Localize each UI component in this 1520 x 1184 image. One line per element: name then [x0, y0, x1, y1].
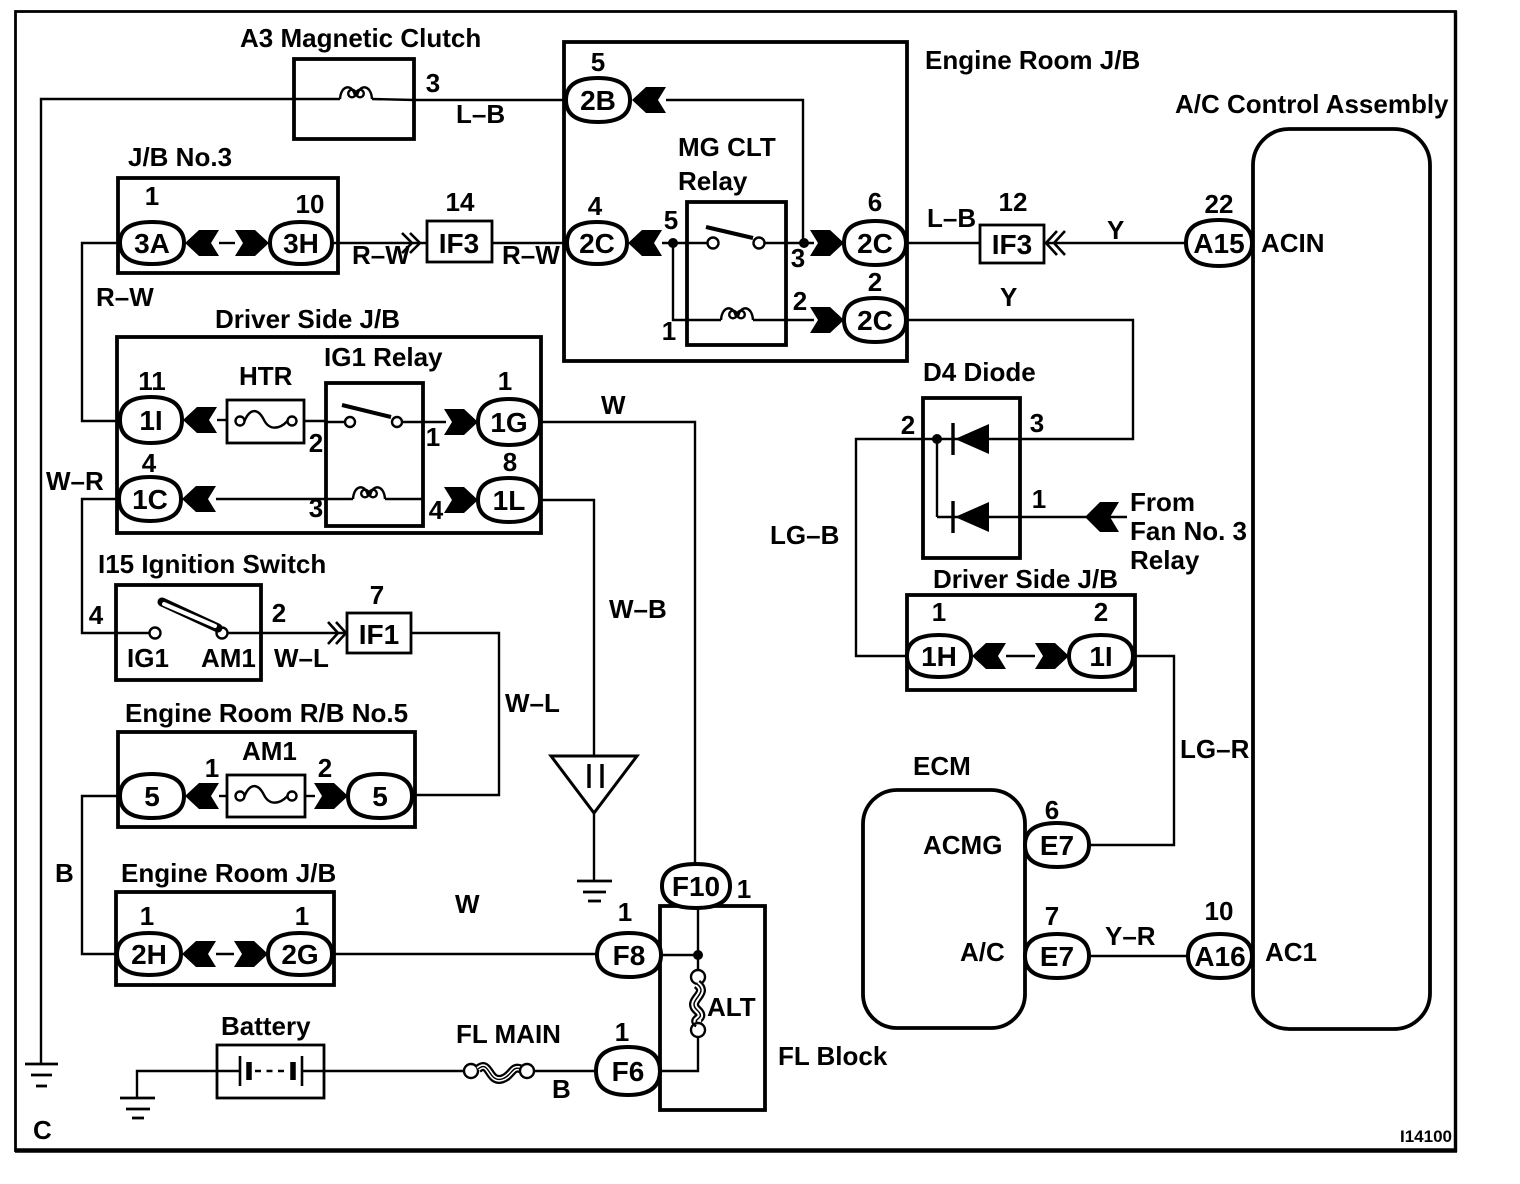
svg-text:R–W: R–W	[96, 282, 154, 312]
svg-text:1G: 1G	[490, 407, 527, 438]
svg-text:R–W: R–W	[502, 240, 560, 270]
fusible link FL MAIN	[464, 1064, 534, 1079]
note From Fan No. 3 Relay	[1130, 487, 1247, 575]
ground noise filter	[577, 881, 612, 901]
connector 5 right	[348, 774, 412, 818]
connector 2H	[117, 933, 181, 975]
svg-text:2: 2	[868, 267, 882, 297]
wire 2C6 to IF3 L-B	[906, 242, 980, 244]
wire arrow to AM1 fuse	[219, 795, 227, 797]
arrow right into 5	[314, 783, 348, 809]
svg-text:2: 2	[309, 428, 323, 458]
svg-text:IF1: IF1	[359, 619, 399, 650]
Engine Room R/B No.5 box	[118, 732, 415, 827]
svg-text:E7: E7	[1040, 941, 1074, 972]
svg-text:3H: 3H	[283, 228, 319, 259]
relay IG1 box	[326, 383, 423, 526]
svg-text:Battery: Battery	[221, 1011, 311, 1041]
wire relay to 1G arrow	[423, 421, 446, 423]
diode D4 lower	[937, 501, 1020, 533]
svg-text:W–R: W–R	[46, 466, 104, 496]
svg-text:Engine Room R/B No.5: Engine Room R/B No.5	[125, 698, 408, 728]
wire contact to 2C pin6	[786, 242, 814, 244]
svg-text:Relay: Relay	[678, 166, 748, 196]
svg-text:1: 1	[662, 316, 676, 346]
svg-text:A/C Control Assembly: A/C Control Assembly	[1175, 89, 1449, 119]
svg-text:2: 2	[901, 410, 915, 440]
connector F6	[596, 1047, 660, 1095]
wire through clutch box	[294, 98, 340, 100]
fuse HTR box	[227, 400, 304, 443]
connector 5 left	[120, 774, 184, 818]
arrow right into 2C pin6	[810, 230, 844, 256]
connector F10	[662, 864, 730, 908]
connector 1G	[478, 399, 540, 445]
svg-text:A/C: A/C	[960, 937, 1005, 967]
wire 2B to relay contact	[666, 100, 803, 243]
wire IF3 to 2C	[492, 242, 567, 244]
svg-text:IG1 Relay: IG1 Relay	[324, 342, 443, 372]
svg-text:F6: F6	[612, 1056, 645, 1087]
svg-text:A15: A15	[1193, 228, 1244, 259]
svg-text:1: 1	[498, 366, 512, 396]
wire fuse to arrow	[305, 795, 315, 797]
svg-text:F10: F10	[672, 871, 720, 902]
svg-text:D4 Diode: D4 Diode	[923, 357, 1036, 387]
wire clutch to 2B	[414, 99, 566, 101]
wire 2C2 to D4 Y	[904, 320, 1133, 439]
fuse IF1 (7) box	[347, 613, 411, 653]
svg-text:B: B	[55, 858, 74, 888]
wire F10 down through block	[697, 908, 699, 970]
svg-text:5: 5	[591, 47, 605, 77]
wire arrow to relay box	[662, 242, 687, 244]
connector 2G	[268, 933, 332, 975]
wire between arrows	[219, 242, 235, 244]
svg-text:Y: Y	[1000, 282, 1017, 312]
svg-text:2B: 2B	[580, 85, 616, 116]
svg-text:R–W: R–W	[352, 240, 410, 270]
fusible link ALT	[691, 970, 705, 1037]
junction dot pin3	[799, 238, 809, 248]
connector 3H	[270, 222, 332, 264]
relay MG CLT contact	[687, 227, 786, 249]
wire coil to 2C pin2	[786, 319, 814, 321]
junction dot pin2	[932, 434, 942, 444]
wire IF1 down to AM1 fuse row W-L	[411, 633, 499, 795]
connector A15	[1186, 220, 1252, 266]
svg-text:W–B: W–B	[609, 594, 667, 624]
arrow right into 1G	[444, 409, 478, 435]
svg-text:ALT: ALT	[707, 992, 756, 1022]
svg-text:Engine Room J/B: Engine Room J/B	[121, 858, 336, 888]
svg-text:1: 1	[737, 874, 751, 904]
junction dot pin5	[668, 238, 678, 248]
arrow right between 1H 1I	[1035, 643, 1069, 669]
J/B No.3 box	[118, 178, 338, 273]
ignition switch I15 box	[116, 585, 261, 680]
Engine Room J/B top box	[564, 42, 907, 361]
svg-text:10: 10	[1205, 896, 1234, 926]
svg-text:LG–B: LG–B	[770, 520, 839, 550]
chevron out of IF3	[1046, 231, 1065, 255]
svg-text:Driver Side J/B: Driver Side J/B	[215, 304, 400, 334]
wire between arrows	[1006, 655, 1035, 657]
svg-text:4: 4	[142, 448, 157, 478]
svg-text:4: 4	[89, 600, 104, 630]
svg-text:MG CLT: MG CLT	[678, 132, 776, 162]
wire pin5 down to coil pin1	[673, 243, 687, 320]
svg-text:2C: 2C	[579, 228, 615, 259]
arrow right into 2C pin2	[810, 307, 844, 333]
svg-text:2G: 2G	[281, 939, 318, 970]
svg-text:FL Block: FL Block	[778, 1041, 888, 1071]
chevron into IF1	[328, 622, 346, 644]
svg-text:1: 1	[140, 901, 154, 931]
svg-text:1: 1	[615, 1017, 629, 1047]
ECM box	[863, 790, 1025, 1028]
svg-text:1: 1	[295, 901, 309, 931]
svg-text:Relay: Relay	[1130, 545, 1200, 575]
arrow left between 3A 3H	[185, 230, 219, 256]
svg-text:FL MAIN: FL MAIN	[456, 1019, 561, 1049]
wire battery to FL MAIN	[324, 1070, 464, 1072]
wire HTR to relay pin2	[304, 420, 326, 422]
svg-text:IF3: IF3	[992, 229, 1032, 260]
arrow left at 2C pin4	[628, 230, 662, 256]
ground C	[25, 1064, 58, 1086]
wire 3H to IF3	[332, 242, 427, 244]
wire A3 clutch to left trunk	[41, 99, 294, 1063]
svg-text:Y: Y	[1107, 215, 1124, 245]
svg-text:ECM: ECM	[913, 751, 971, 781]
svg-text:3: 3	[1030, 408, 1044, 438]
wire FL MAIN to F6 B	[534, 1070, 597, 1072]
wire 1L to noise filter W-B	[540, 500, 594, 756]
wire E7 to A16 Y-R	[1089, 955, 1188, 957]
fuse AM1 box	[227, 775, 305, 817]
diode D4 upper	[937, 423, 1020, 455]
svg-text:L–B: L–B	[927, 203, 976, 233]
svg-text:Engine Room J/B: Engine Room J/B	[925, 45, 1140, 75]
chevron into IF3	[402, 233, 420, 253]
svg-text:2: 2	[272, 598, 286, 628]
arrow left at 5	[185, 783, 219, 809]
svg-text:ACMG: ACMG	[923, 830, 1002, 860]
connector 1L	[478, 478, 540, 522]
svg-text:6: 6	[1045, 795, 1059, 825]
svg-text:8: 8	[503, 447, 517, 477]
connector 2B	[566, 78, 630, 122]
connector 1C	[119, 477, 181, 521]
diode D4 box	[923, 398, 1020, 558]
wire filter to ground	[593, 813, 595, 881]
wire ALT to F6	[661, 1037, 698, 1071]
Driver Side J/B right box	[907, 595, 1135, 690]
svg-text:1I: 1I	[1089, 641, 1112, 672]
svg-text:1: 1	[1032, 484, 1046, 514]
arrow right between 2H 2G	[234, 941, 268, 967]
svg-text:12: 12	[999, 187, 1028, 217]
svg-text:I14100: I14100	[1400, 1127, 1452, 1146]
connector 2C pin6	[844, 221, 906, 265]
junction dot	[693, 950, 703, 960]
svg-text:1: 1	[145, 181, 159, 211]
wire 5 left to B trunk	[82, 796, 120, 954]
ignition switch contacts	[116, 602, 261, 639]
svg-text:AC1: AC1	[1265, 937, 1317, 967]
svg-text:Y–R: Y–R	[1105, 921, 1156, 951]
arrow from fan no3 relay	[1085, 502, 1119, 532]
svg-text:3: 3	[309, 493, 323, 523]
svg-text:2C: 2C	[857, 228, 893, 259]
connector 3A	[120, 222, 184, 264]
svg-text:7: 7	[1045, 901, 1059, 931]
arrow right between 3A 3H	[235, 230, 269, 256]
wire ignition to IF1	[261, 632, 347, 634]
A/C control assembly box	[1253, 129, 1430, 1029]
connector 2C pin2	[844, 298, 906, 342]
FL Block box	[660, 906, 765, 1110]
wire 1I to E7 LG-R	[1090, 656, 1174, 845]
svg-text:2C: 2C	[857, 305, 893, 336]
fuse HTR symbol	[236, 411, 297, 428]
fuse IF3 (14) box	[427, 221, 492, 262]
svg-text:B: B	[552, 1074, 571, 1104]
svg-text:22: 22	[1205, 189, 1234, 219]
fuse IF3 (12) box	[980, 225, 1044, 263]
svg-text:I15 Ignition Switch: I15 Ignition Switch	[98, 549, 326, 579]
relay IG1 coil	[326, 487, 423, 499]
svg-text:5: 5	[664, 205, 678, 235]
connector 1I right	[1069, 635, 1133, 677]
wire 1C arrow to relay coil	[216, 498, 326, 500]
svg-text:1L: 1L	[493, 485, 526, 516]
svg-text:Driver Side J/B: Driver Side J/B	[933, 564, 1118, 594]
Engine Room J/B bottom box	[116, 892, 334, 985]
svg-text:1H: 1H	[921, 641, 957, 672]
svg-text:E7: E7	[1040, 830, 1074, 861]
relay MG CLT box	[687, 202, 786, 345]
svg-text:IG1: IG1	[127, 643, 169, 673]
svg-text:J/B No.3: J/B No.3	[128, 142, 232, 172]
svg-text:IF3: IF3	[439, 228, 479, 259]
fuse AM1 symbol	[236, 786, 297, 803]
svg-text:1: 1	[426, 422, 440, 452]
relay IG1 contact	[326, 405, 423, 427]
svg-text:ACIN: ACIN	[1261, 228, 1325, 258]
wire D4 pin2 to 1H LG-B	[856, 439, 937, 656]
svg-text:5: 5	[372, 781, 388, 812]
connector A16	[1188, 934, 1252, 978]
svg-text:C: C	[33, 1115, 52, 1145]
arrow left between 2H 2G	[182, 941, 216, 967]
wire arrow to HTR fuse	[217, 419, 227, 421]
connector 2C pin4	[567, 222, 627, 264]
arrow left at 1I	[183, 407, 217, 433]
svg-text:4: 4	[429, 495, 444, 525]
coil A3 clutch	[340, 87, 372, 99]
svg-text:LG–R: LG–R	[1180, 734, 1250, 764]
wire 1G to W trunk	[540, 422, 695, 864]
arrow right into 1L	[444, 487, 478, 513]
svg-text:6: 6	[868, 187, 882, 217]
MG CLT Relay title	[678, 132, 776, 196]
svg-text:1: 1	[932, 597, 946, 627]
relay MG CLT coil	[687, 308, 786, 320]
svg-text:1C: 1C	[132, 484, 168, 515]
svg-text:AM1: AM1	[201, 643, 256, 673]
arrow left between 1H 1I	[972, 643, 1006, 669]
svg-text:2H: 2H	[131, 939, 167, 970]
wire F8 to junction	[661, 954, 698, 956]
svg-text:1: 1	[205, 753, 219, 783]
arrow left at 1C	[182, 486, 216, 512]
svg-text:1I: 1I	[139, 405, 162, 436]
connector E7 pin6	[1025, 823, 1089, 867]
battery box	[217, 1045, 324, 1098]
arrow left at 2B	[632, 87, 666, 113]
connector 1I	[120, 397, 182, 443]
svg-text:A16: A16	[1194, 941, 1245, 972]
svg-text:W: W	[455, 889, 480, 919]
svg-text:10: 10	[296, 189, 325, 219]
Driver Side J/B box	[117, 337, 541, 533]
svg-text:W: W	[601, 390, 626, 420]
svg-text:2: 2	[793, 286, 807, 316]
svg-text:HTR: HTR	[239, 361, 293, 391]
svg-text:11: 11	[138, 366, 166, 396]
svg-text:Fan No. 3: Fan No. 3	[1130, 516, 1247, 546]
wire battery to ground	[137, 1071, 217, 1097]
connector 1H	[907, 635, 971, 677]
battery symbol	[217, 1056, 324, 1086]
svg-text:F8: F8	[613, 940, 646, 971]
noise filter II triangle	[551, 756, 637, 813]
svg-text:5: 5	[144, 781, 160, 812]
wire 3A to left trunk R-W	[82, 243, 120, 421]
svg-text:W–L: W–L	[505, 688, 560, 718]
connector E7 pin7	[1025, 934, 1089, 978]
svg-text:L–B: L–B	[456, 99, 505, 129]
svg-text:A3 Magnetic Clutch: A3 Magnetic Clutch	[240, 23, 481, 53]
svg-text:2: 2	[318, 753, 332, 783]
svg-text:AM1: AM1	[242, 736, 297, 766]
connector F8	[597, 933, 661, 977]
svg-text:4: 4	[588, 191, 603, 221]
svg-text:14: 14	[446, 187, 475, 217]
wire 1C to ignition pin4 W-R	[82, 499, 119, 633]
wire IF3 to A15 Y	[1046, 242, 1186, 244]
svg-text:7: 7	[370, 580, 384, 610]
svg-text:1: 1	[618, 897, 632, 927]
svg-text:3: 3	[426, 68, 440, 98]
ground battery	[120, 1098, 155, 1118]
wire diode to fan relay arrow	[1020, 516, 1127, 518]
svg-text:2: 2	[1094, 597, 1108, 627]
wire junction down to lower diode	[936, 439, 938, 517]
svg-text:From: From	[1130, 487, 1195, 517]
wire 2G to F8 W	[332, 953, 597, 955]
wire between arrows	[216, 953, 234, 955]
svg-text:W–L: W–L	[274, 643, 329, 673]
A3 magnetic clutch box	[294, 59, 414, 139]
svg-text:3A: 3A	[134, 228, 170, 259]
